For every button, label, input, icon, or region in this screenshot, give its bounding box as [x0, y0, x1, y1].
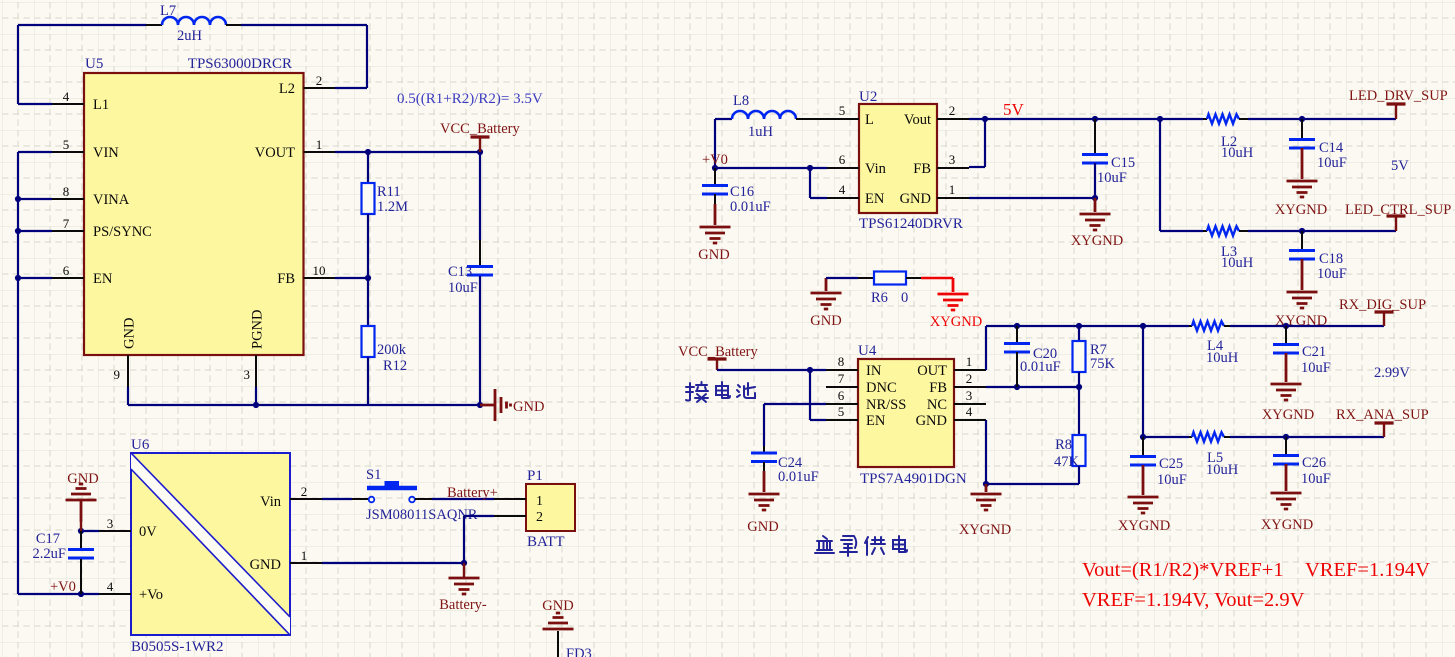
svg-text:Vout=(R1/R2)*VREF+1: Vout=(R1/R2)*VREF+1 — [1082, 559, 1284, 581]
svg-text:GND: GND — [900, 191, 931, 207]
svg-text:6: 6 — [839, 152, 846, 167]
svg-text:VOUT: VOUT — [255, 145, 295, 161]
svg-text:0.5((R1+R2)/R2)= 3.5V: 0.5((R1+R2)/R2)= 3.5V — [397, 91, 543, 107]
svg-text:9: 9 — [114, 367, 121, 382]
svg-text:10uF: 10uF — [1097, 170, 1127, 186]
svg-text:1.2M: 1.2M — [377, 199, 408, 215]
svg-text:VCC_Battery: VCC_Battery — [440, 121, 520, 137]
svg-text:0V: 0V — [139, 524, 157, 540]
svg-text:XYGND: XYGND — [930, 314, 982, 330]
svg-text:PS/SYNC: PS/SYNC — [93, 224, 152, 240]
svg-text:Vin: Vin — [865, 161, 887, 177]
svg-text:C25: C25 — [1159, 456, 1183, 472]
svg-text:0.01uF: 0.01uF — [778, 469, 819, 485]
svg-text:10uF: 10uF — [1317, 266, 1347, 282]
svg-text:3: 3 — [949, 152, 956, 167]
svg-text:2.99V: 2.99V — [1374, 365, 1410, 381]
svg-text:GND: GND — [122, 318, 138, 349]
svg-text:C13: C13 — [448, 264, 472, 280]
svg-text:0: 0 — [901, 290, 908, 306]
svg-text:7: 7 — [63, 216, 70, 231]
svg-text:C17: C17 — [36, 531, 60, 547]
svg-text:OUT: OUT — [917, 363, 947, 379]
svg-text:2.2uF: 2.2uF — [33, 546, 66, 562]
svg-text:NC: NC — [927, 397, 947, 413]
svg-text:5: 5 — [838, 404, 845, 419]
svg-text:1: 1 — [536, 494, 543, 509]
svg-text:Battery+: Battery+ — [447, 485, 498, 501]
svg-text:GND: GND — [747, 519, 778, 535]
svg-text:2: 2 — [966, 371, 973, 386]
svg-text:1: 1 — [966, 354, 973, 369]
svg-text:5: 5 — [63, 137, 70, 152]
svg-text:10: 10 — [313, 263, 326, 278]
svg-text:4: 4 — [839, 182, 846, 197]
svg-text:5V: 5V — [1003, 100, 1025, 119]
svg-text:C21: C21 — [1302, 344, 1326, 360]
svg-text:10uF: 10uF — [1157, 472, 1187, 488]
svg-text:L8: L8 — [733, 93, 749, 109]
svg-text:C16: C16 — [730, 184, 754, 200]
svg-text:1uH: 1uH — [748, 124, 774, 140]
svg-text:GND: GND — [67, 471, 98, 487]
svg-text:EN: EN — [865, 191, 885, 207]
svg-text:2: 2 — [301, 484, 308, 499]
svg-text:FB: FB — [913, 161, 931, 177]
svg-text:EN: EN — [93, 271, 113, 287]
svg-text:4: 4 — [63, 89, 70, 104]
svg-text:S1: S1 — [366, 467, 381, 483]
svg-text:XYGND: XYGND — [1071, 233, 1123, 249]
svg-text:2: 2 — [316, 73, 323, 88]
svg-text:10uH: 10uH — [1221, 145, 1254, 161]
svg-text:GND: GND — [250, 557, 281, 573]
svg-text:C26: C26 — [1302, 455, 1326, 471]
svg-text:C14: C14 — [1319, 140, 1344, 156]
svg-text:+V0: +V0 — [50, 579, 76, 595]
svg-text:3: 3 — [966, 388, 973, 403]
svg-text:FB: FB — [929, 380, 947, 396]
svg-text:GND: GND — [810, 313, 841, 329]
svg-text:U5: U5 — [85, 56, 103, 72]
svg-text:DNC: DNC — [866, 380, 897, 396]
svg-text:BATT: BATT — [527, 534, 565, 550]
svg-text:1: 1 — [301, 548, 308, 563]
svg-text:U2: U2 — [859, 89, 877, 105]
svg-text:LED_CTRL_SUP: LED_CTRL_SUP — [1345, 202, 1451, 218]
svg-text:L: L — [865, 112, 874, 128]
svg-text:NR/SS: NR/SS — [866, 397, 906, 413]
svg-text:Vout: Vout — [904, 112, 931, 128]
svg-text:U4: U4 — [858, 343, 877, 359]
svg-text:6: 6 — [63, 263, 70, 278]
svg-text:Vin: Vin — [260, 494, 282, 510]
svg-text:JSM08011SAQNR: JSM08011SAQNR — [366, 507, 478, 523]
svg-text:PGND: PGND — [250, 310, 266, 349]
svg-text:B0505S-1WR2: B0505S-1WR2 — [131, 639, 224, 655]
svg-text:5: 5 — [839, 103, 846, 118]
svg-text:8: 8 — [838, 354, 845, 369]
svg-text:XYGND: XYGND — [1275, 202, 1327, 218]
svg-text:3: 3 — [107, 516, 114, 531]
svg-text:L2: L2 — [279, 81, 295, 97]
svg-text:10uH: 10uH — [1221, 255, 1254, 271]
svg-text:+V0: +V0 — [702, 152, 728, 168]
svg-text:1: 1 — [949, 182, 956, 197]
svg-text:0.01uF: 0.01uF — [1020, 359, 1061, 375]
svg-text:LED_DRV_SUP: LED_DRV_SUP — [1349, 88, 1448, 104]
svg-text:XYGND: XYGND — [1118, 518, 1170, 534]
svg-text:GND: GND — [698, 247, 729, 263]
svg-text:R6: R6 — [871, 290, 888, 306]
svg-text:4: 4 — [966, 404, 973, 419]
svg-text:200k: 200k — [377, 342, 407, 358]
svg-text:IN: IN — [866, 363, 882, 379]
svg-text:2: 2 — [949, 103, 956, 118]
svg-text:8: 8 — [63, 184, 70, 199]
svg-text:L7: L7 — [160, 3, 176, 19]
svg-text:1: 1 — [316, 137, 323, 152]
svg-text:10uF: 10uF — [1317, 155, 1347, 171]
svg-text:XYGND: XYGND — [959, 522, 1011, 538]
svg-text:C18: C18 — [1319, 251, 1343, 267]
svg-text:C15: C15 — [1111, 155, 1135, 171]
svg-text:4: 4 — [107, 579, 114, 594]
svg-text:GND: GND — [513, 399, 544, 415]
svg-text:FB: FB — [277, 271, 295, 287]
svg-text:10uF: 10uF — [448, 280, 478, 296]
svg-text:10uF: 10uF — [1301, 360, 1331, 376]
svg-text:RX_DIG_SUP: RX_DIG_SUP — [1339, 297, 1426, 313]
svg-text:RX_ANA_SUP: RX_ANA_SUP — [1336, 407, 1429, 423]
svg-text:7: 7 — [838, 371, 845, 386]
svg-text:L1: L1 — [93, 97, 109, 113]
svg-text:XYGND: XYGND — [1262, 407, 1314, 423]
svg-text:47K: 47K — [1054, 454, 1080, 470]
svg-text:TPS61240DRVR: TPS61240DRVR — [859, 216, 963, 232]
svg-text:R8: R8 — [1055, 437, 1072, 453]
svg-text:VREF=1.194V, Vout=2.9V: VREF=1.194V, Vout=2.9V — [1082, 589, 1305, 611]
svg-text:FD3: FD3 — [566, 646, 592, 657]
svg-text:2: 2 — [536, 510, 543, 525]
svg-text:75K: 75K — [1090, 356, 1116, 372]
svg-text:P1: P1 — [527, 468, 543, 484]
svg-text:GND: GND — [916, 413, 947, 429]
svg-text:10uH: 10uH — [1206, 462, 1239, 478]
svg-text:TPS7A4901DGN: TPS7A4901DGN — [860, 471, 967, 487]
svg-text:U6: U6 — [131, 437, 150, 453]
svg-text:VREF=1.194V: VREF=1.194V — [1305, 559, 1430, 581]
svg-text:VIN: VIN — [93, 145, 119, 161]
svg-text:2uH: 2uH — [177, 28, 203, 44]
svg-text:10uF: 10uF — [1301, 471, 1331, 487]
svg-text:R11: R11 — [377, 184, 401, 200]
svg-text:EN: EN — [866, 413, 886, 429]
svg-text:5V: 5V — [1391, 158, 1409, 174]
svg-text:Battery-: Battery- — [439, 597, 487, 613]
svg-text:3: 3 — [244, 367, 251, 382]
svg-text:10uH: 10uH — [1206, 350, 1239, 366]
svg-text:0.01uF: 0.01uF — [730, 199, 771, 215]
svg-text:TPS63000DRCR: TPS63000DRCR — [188, 56, 292, 72]
svg-text:XYGND: XYGND — [1261, 517, 1313, 533]
svg-text:+Vo: +Vo — [139, 587, 163, 603]
svg-text:VINA: VINA — [93, 192, 130, 208]
svg-text:R12: R12 — [383, 358, 407, 374]
svg-text:6: 6 — [838, 388, 845, 403]
